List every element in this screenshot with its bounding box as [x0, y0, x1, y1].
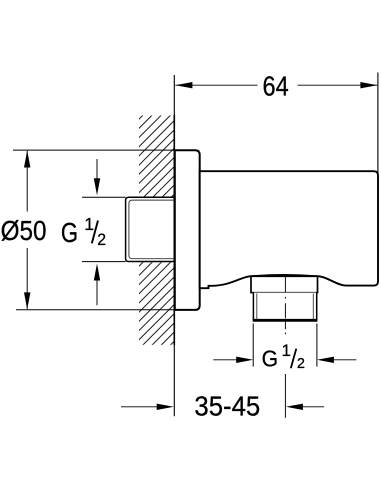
- top extension line: [13, 149, 174, 151]
- bottom extension line: [16, 309, 174, 311]
- right arrowhead: [360, 82, 377, 88]
- dimension line: [175, 84, 257, 86]
- dimension G1/2 outlet: [213, 324, 356, 372]
- svg-text:64: 64: [263, 72, 289, 102]
- right arrow (pointing left): [334, 359, 357, 361]
- flange (escutcheon): [175, 150, 200, 310]
- bottom arrowhead: [24, 292, 30, 309]
- center line of outlet (dash-dot): [284, 275, 286, 335]
- svg-text:G: G: [262, 345, 278, 371]
- wall surface line: [173, 75, 175, 416]
- pipe thread G1/2 in wall: [126, 197, 175, 263]
- boss top silhouette (slight arc): [251, 275, 318, 276]
- fraction slash: [92, 221, 98, 244]
- left arrow (pointing right, tip at wall line): [121, 406, 158, 408]
- svg-text:2: 2: [297, 356, 305, 372]
- right extension line: [377, 73, 379, 175]
- svg-text:35-45: 35-45: [194, 390, 260, 421]
- left arrow (pointing right): [213, 359, 237, 361]
- wall hatching: [139, 116, 174, 345]
- outlet nipple G1/2: [253, 293, 318, 321]
- svg-text:2: 2: [97, 231, 106, 250]
- svg-text:Ø50: Ø50: [1, 214, 47, 246]
- dimension G1/2 wall thread: [61, 159, 126, 305]
- right extension line: [316, 324, 318, 367]
- outlet boss: [250, 276, 318, 292]
- svg-text:G: G: [61, 218, 78, 249]
- right arrow (pointing left, tip at centre line): [303, 406, 324, 408]
- fraction slash: [291, 349, 297, 369]
- left extension line: [252, 324, 254, 367]
- upper arrow: [96, 159, 98, 179]
- svg-text:1: 1: [84, 214, 94, 234]
- lower arrow: [96, 280, 98, 305]
- dimension D50: [1, 150, 175, 310]
- dimension 64: [175, 72, 378, 174]
- top extension line: [82, 196, 126, 198]
- body of wall union: [200, 171, 378, 288]
- dimension 35-45: [121, 390, 324, 421]
- bottom extension line: [82, 261, 126, 263]
- left arrowhead: [175, 82, 192, 88]
- top arrowhead: [24, 151, 30, 168]
- svg-text:1: 1: [282, 341, 291, 360]
- dimension line: [26, 151, 28, 212]
